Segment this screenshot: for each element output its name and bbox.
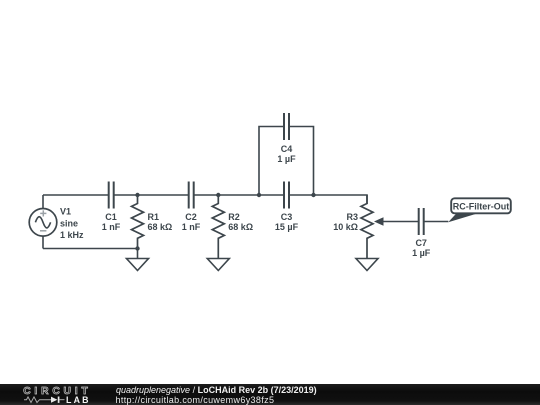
- capacitor C4: [284, 113, 289, 140]
- wire C4 branch left riser: [259, 127, 284, 196]
- junction node at C4 left: [257, 193, 261, 197]
- C1 label: [102, 212, 121, 232]
- R3 label: [333, 212, 358, 232]
- junction node at C4 right: [311, 193, 315, 197]
- wire rail C2 to C3: [194, 194, 284, 196]
- wire C4 branch right riser: [289, 127, 314, 196]
- svg-text:C1: C1: [105, 212, 117, 222]
- C4 label: [277, 144, 296, 164]
- svg-text:1 µF: 1 µF: [412, 248, 431, 258]
- svg-text:1 nF: 1 nF: [182, 222, 201, 232]
- svg-text:R2: R2: [228, 212, 240, 222]
- svg-text:C7: C7: [415, 238, 427, 248]
- capacitor C2: [189, 182, 194, 209]
- resistor R1: [132, 195, 144, 249]
- svg-text:C3: C3: [281, 212, 293, 222]
- wire R3 wiper to C7: [383, 221, 419, 223]
- voltage source V1: [29, 209, 57, 237]
- svg-text:RC-Filter-Out: RC-Filter-Out: [453, 201, 510, 211]
- capacitor C1: [109, 182, 114, 209]
- svg-text:R3: R3: [346, 212, 358, 222]
- svg-text:C2: C2: [185, 212, 197, 222]
- svg-text:C4: C4: [281, 144, 293, 154]
- capacitor C7: [419, 208, 424, 235]
- R3 wiper arrow: [374, 217, 384, 226]
- wire bottom return V1 to ground junction: [43, 248, 138, 250]
- svg-text:15 µF: 15 µF: [275, 222, 299, 232]
- svg-text:sine: sine: [60, 218, 78, 228]
- wire V1 top lead: [42, 195, 44, 209]
- svg-text:68 kΩ: 68 kΩ: [148, 222, 173, 232]
- svg-text:1 kHz: 1 kHz: [60, 230, 84, 240]
- junction node at C1/R1: [135, 193, 139, 197]
- net flag RC-Filter-Out box: [451, 198, 511, 213]
- wire main rail segment V1 to C1: [43, 194, 109, 196]
- wire rail C1 to C2: [114, 194, 189, 196]
- svg-text:68 kΩ: 68 kΩ: [228, 222, 253, 232]
- footer bar: [0, 384, 540, 405]
- junction node at C2/R2: [216, 193, 220, 197]
- wire C7 to flag: [424, 221, 449, 223]
- wire rail C3 to R3 with corner down: [289, 195, 367, 204]
- svg-text:R1: R1: [148, 212, 160, 222]
- R2 label: [228, 212, 253, 232]
- potentiometer R3: [361, 195, 373, 259]
- footer title and url: [116, 385, 317, 395]
- C7 label: [412, 238, 431, 258]
- R1 label: [148, 212, 173, 232]
- svg-text:LAB: LAB: [66, 395, 91, 405]
- ground G3 (under R3): [356, 259, 378, 271]
- svg-text:V1: V1: [60, 207, 71, 217]
- C3 label: [275, 212, 299, 232]
- svg-text:1 µF: 1 µF: [277, 154, 296, 164]
- junction node bottom return: [135, 246, 139, 250]
- C2 label: [182, 212, 201, 232]
- svg-text:10 kΩ: 10 kΩ: [333, 222, 358, 232]
- ground G1 (under R1 / V1 return): [127, 249, 149, 271]
- resistor R2: [212, 195, 224, 259]
- wire V1 bottom lead: [42, 236, 44, 248]
- svg-text:1 nF: 1 nF: [102, 222, 121, 232]
- V1 label: [60, 207, 84, 241]
- ground G2 (under R2): [207, 259, 229, 271]
- CircuitLab logo: [0, 384, 100, 405]
- capacitor C3: [284, 182, 289, 209]
- net flag RC-Filter-Out tail: [448, 213, 478, 222]
